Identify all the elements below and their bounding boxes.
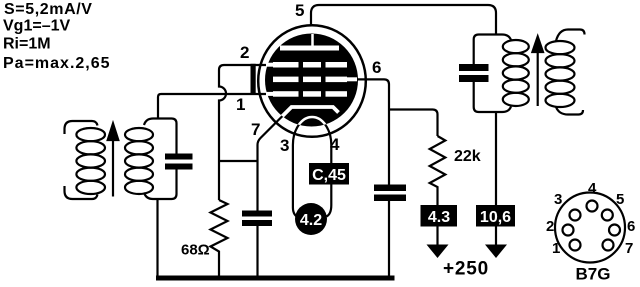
socket pin 1 [570, 240, 581, 251]
wire: tank top to grid stub [158, 94, 161, 119]
pentode V1 internal disc [265, 34, 358, 127]
capacitor screen bypass [374, 185, 406, 202]
meter circle 4.2 [295, 203, 327, 235]
svg-text:10,6: 10,6 [480, 209, 511, 226]
svg-text:7: 7 [625, 240, 633, 257]
svg-text:Vg1=–1V: Vg1=–1V [3, 18, 70, 35]
socket pin 3 [570, 210, 581, 221]
capacitor of output tank [459, 64, 489, 82]
wire: tank bottom to ground bus [156, 199, 158, 277]
pentode V1 envelope [258, 25, 366, 137]
tuning capacitor of input tank [165, 154, 193, 170]
resistor 68ohm [211, 200, 228, 276]
svg-text:6: 6 [627, 218, 635, 235]
cathode electrode [277, 107, 339, 122]
measurement box 10,6 [476, 205, 515, 227]
wire: cathode cap to ground bus [256, 226, 258, 277]
socket pin 4 [587, 201, 598, 212]
wire: input tank bottom [144, 170, 177, 200]
svg-text:S=5,2mA/V: S=5,2mA/V [4, 1, 93, 18]
wire: junction pin2 line to cathode line [219, 160, 258, 162]
wire: screen cap to ground bus [388, 201, 390, 277]
coupling arrow of output transformer [532, 37, 543, 107]
anode lead inside [311, 34, 314, 46]
resistor 22k [430, 136, 446, 205]
svg-text:1: 1 [236, 95, 245, 114]
grid row g2 (to pin 6) [273, 77, 357, 83]
grid row g1 (to pin 1) [266, 91, 347, 97]
measurement box 4.3 [421, 205, 458, 227]
socket pin 2 [563, 225, 574, 236]
anode plate [280, 46, 339, 51]
svg-text:6: 6 [372, 58, 381, 77]
svg-text:4: 4 [588, 180, 597, 197]
supply arrow below 10,6 [485, 227, 507, 259]
svg-text:2: 2 [240, 43, 249, 62]
svg-text:C,45: C,45 [312, 167, 346, 184]
socket pin 5 [602, 210, 613, 221]
svg-text:22k: 22k [454, 148, 481, 165]
svg-text:68Ω: 68Ω [181, 242, 210, 259]
grid row g3 (to pin 2) [266, 62, 347, 68]
wire: grid pin 1 [161, 93, 267, 95]
wire: pin 2 down with hop over grid wire [219, 65, 267, 200]
wire: output tank bottom to 10,6 [495, 112, 497, 205]
wire: branch to 22k [389, 110, 438, 137]
svg-text:2: 2 [546, 218, 554, 235]
wire: input tank top [144, 119, 177, 154]
svg-text:1: 1 [552, 240, 560, 257]
svg-text:5: 5 [295, 1, 304, 20]
measurement box C,45 [309, 163, 349, 185]
svg-text:Pa=max.2,65: Pa=max.2,65 [3, 55, 111, 72]
svg-text:4.2: 4.2 [300, 212, 322, 229]
tuned secondary coil L2 of input transformer [125, 128, 153, 194]
output transformer secondary coil [546, 30, 585, 115]
supply arrow below 4.3 [427, 227, 449, 259]
svg-text:3: 3 [280, 136, 289, 155]
output tank loop wires [474, 35, 502, 113]
svg-text:Ri=1M: Ri=1M [3, 36, 51, 53]
wire: cathode pin 7 [258, 111, 288, 211]
svg-text:B7G: B7G [576, 265, 611, 284]
ground bus [156, 276, 395, 281]
svg-text:4.3: 4.3 [428, 209, 450, 226]
output transformer primary coil [502, 35, 529, 113]
B7G socket outline [555, 193, 625, 263]
grid contact bar at tube left edge [251, 64, 256, 95]
socket pin 7 [603, 240, 614, 251]
coupling arrow of input transformer [108, 124, 119, 197]
wire: anode pin 5 to output tank [311, 5, 496, 35]
svg-text:+250: +250 [443, 259, 489, 280]
heater filament arc (white inside envelope) [293, 117, 331, 145]
capacitor cathode bypass [242, 211, 272, 227]
svg-text:5: 5 [616, 191, 624, 208]
socket pin 6 [609, 225, 620, 236]
wire: screen pin 6 right and down [357, 79, 389, 185]
antenna coil L1 primary of input transformer [65, 121, 105, 199]
svg-text:7: 7 [251, 120, 260, 139]
svg-text:3: 3 [554, 191, 562, 208]
wire: heater pin 3 down [293, 117, 331, 218]
